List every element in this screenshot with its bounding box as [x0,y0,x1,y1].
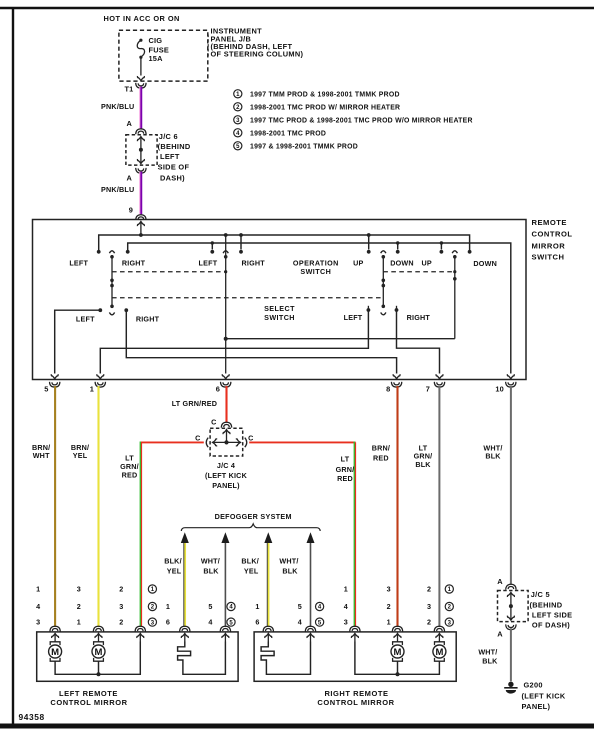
svg-text:(BEHIND: (BEHIND [530,600,563,609]
svg-text:C: C [211,418,216,427]
switch pole C (select switch pole) [381,251,386,315]
svg-text:2: 2 [119,618,123,627]
fixed contact LEFT2 [210,250,214,254]
svg-text:BLK: BLK [482,657,498,666]
heater element right mirror [261,642,310,675]
label WHT/BLK (right, defogger) [279,556,298,575]
right mirror heater pin numbers 5 4 [298,602,302,627]
svg-text:CONTROL MIRROR: CONTROL MIRROR [317,698,394,707]
svg-text:A: A [127,173,133,182]
wire rail 1 (battery feed bus inside switch) [99,235,470,250]
switch pole D (up/down pole, right side) [452,251,457,339]
svg-text:1998-2001 TMC PROD W/ MIRROR H: 1998-2001 TMC PROD W/ MIRROR HEATER [250,104,400,111]
label J/C 6 (BEHIND LEFT SIDE OF DASH) [158,132,191,182]
wire BLK/YEL left mirror heater to defogger [181,532,189,627]
left mirror pin column 3 numbers 2 3 2 [119,585,123,627]
svg-text:(LEFT KICK: (LEFT KICK [522,692,566,701]
right mirror circled variant notes 1 2 3 [445,585,453,626]
label RIGHT REMOTE CONTROL MIRROR [317,689,394,707]
svg-text:LEFT REMOTE: LEFT REMOTE [59,689,118,698]
label WHT/BLK (ground) [478,647,498,665]
wire BRN/YEL pin1 to left mirror [97,386,99,627]
svg-text:LEFT: LEFT [344,313,363,322]
svg-text:(BEHIND: (BEHIND [158,142,191,151]
svg-text:10: 10 [495,384,504,393]
fixed contact LEFT4 (select right) [367,306,371,312]
wire PNK/BLU from T1 to junction A of J/C 6 [140,87,141,129]
svg-text:BLK: BLK [203,566,219,575]
fixed contact LEFT1 [97,250,101,254]
svg-text:LEFT: LEFT [69,258,88,267]
pin 5 male terminal arrow [51,374,58,379]
svg-text:RIGHT: RIGHT [407,313,431,322]
svg-text:RIGHT: RIGHT [242,258,266,267]
svg-text:4: 4 [36,602,40,611]
legend note 4: 1998-2001 TMC PROD [234,129,326,138]
svg-text:5: 5 [298,602,302,611]
svg-text:G200: G200 [524,680,543,689]
wire WHT/BLK pin10 to J/C 5 [510,386,512,584]
wire BLK/YEL right mirror heater to defogger [264,532,272,627]
left mirror heater pin numbers 5 4 [208,602,212,627]
node pin9 on rail1 [139,233,143,237]
fuse output terminal arrow into connector T1 [137,76,144,81]
remote control mirror switch outline box [33,220,527,380]
svg-text:SWITCH: SWITCH [300,267,331,276]
svg-text:6: 6 [166,618,170,627]
svg-text:3: 3 [77,585,81,594]
connector A socket at J/C 6 bottom [136,168,146,173]
svg-text:OF DASH): OF DASH) [532,621,570,630]
svg-text:PANEL): PANEL) [522,702,551,711]
svg-text:WHT/: WHT/ [201,556,220,565]
fixed contact UP1 [367,250,371,254]
label J/C 4 (LEFT KICK PANEL) [205,461,248,490]
svg-text:A: A [497,577,503,586]
legend note 2: 1998-2001 TMC PROD W/ MIRROR HEATER [234,103,401,112]
svg-text:3: 3 [387,585,391,594]
callout dashed separator line [207,35,209,58]
left mirror entry terminal arrow 3 [137,633,144,641]
pin 10 socket [506,382,516,387]
pin 7 socket [434,382,444,387]
pin 5 socket [50,382,60,387]
label LT GRN/RED (right branch) [336,455,355,484]
label BRN/WHT [32,443,50,460]
svg-text:T1: T1 [124,85,133,94]
pin 9 male terminal arrow inside switch [137,222,144,236]
legend note 5: 1997 & 1998-2001 TMMK PROD [234,142,358,151]
wire pole B junction to pole D bottom [226,338,455,340]
svg-text:1: 1 [77,618,81,627]
svg-text:PNK/BLU: PNK/BLU [101,185,134,194]
svg-text:A: A [497,630,503,639]
label LEFT REMOTE CONTROL MIRROR [50,689,127,707]
svg-text:CONTROL MIRROR: CONTROL MIRROR [50,698,127,707]
svg-text:BLK: BLK [415,460,431,469]
node pole B / pin 6 junction [224,337,228,341]
svg-text:DASH): DASH) [160,173,185,182]
wire WHT/BLK J/C 5 to ground G200 [510,628,512,681]
wire pin 1 to LEFT4 select contact [100,312,368,374]
fixed contact UP2 [440,250,444,254]
svg-text:2: 2 [77,602,81,611]
svg-text:SIDE OF: SIDE OF [158,162,190,171]
svg-text:1: 1 [36,585,40,594]
svg-text:LEFT SIDE: LEFT SIDE [532,611,572,620]
svg-text:1: 1 [344,585,348,594]
svg-text:1997 & 1998-2001 TMMK PROD: 1997 & 1998-2001 TMMK PROD [250,143,358,150]
svg-text:BLK/: BLK/ [241,556,259,565]
pin 6 socket [221,382,231,387]
J/C 6 internal node and arrows [137,137,144,164]
svg-text:SWITCH: SWITCH [264,313,295,322]
svg-text:2: 2 [427,585,431,594]
right mirror entry terminal arrow 4 [394,633,401,641]
wire BRN/RED pin8 to right mirror [396,386,398,627]
svg-text:1997 TMC PROD & 1998-2001 TMC: 1997 TMC PROD & 1998-2001 TMC PROD W/O M… [250,117,473,124]
left mirror entry terminal arrow 4 [181,633,188,641]
right mirror pin column numbers 2 3 2 [427,585,431,627]
svg-text:YEL: YEL [73,451,88,460]
mechanical linkage dashed line right [383,271,455,273]
pin 1 socket [95,382,105,387]
label BLK/YEL (left) [164,556,182,575]
node RIGHT2 stub on rail1 [239,233,243,237]
wire rail 2 inside switch [128,243,511,374]
wire BRN/WHT pin5 to left mirror [54,386,56,627]
left mirror entry socket 5 [220,626,230,631]
label LT GRN/RED (left branch) [120,454,139,480]
fixed contact DOWN1 [396,250,400,254]
wire LT GRN/RED pin6 to J/C 4 [225,386,227,422]
svg-text:C: C [248,433,253,442]
svg-text:6: 6 [255,618,259,627]
left remote control mirror box [37,632,238,681]
right mirror entry socket 2 [305,626,315,631]
svg-text:9: 9 [129,206,133,215]
legend note 3: 1997 TMC PROD & 1998-2001 TMC PROD W/O MIRROR HEATER [234,116,473,125]
pin 8 male terminal arrow [393,374,400,379]
node left mirror motor2 common [97,672,101,676]
label LT GRN/BLK [414,443,433,468]
svg-text:BRN/: BRN/ [372,443,390,452]
svg-text:3: 3 [36,618,40,627]
heater element left mirror [178,642,226,675]
pin 1 male terminal arrow [97,374,104,379]
motor M4 right mirror (up/down) [433,642,446,661]
left mirror circled variant notes 1 2 3 [148,585,156,626]
pin 10 male terminal arrow [507,374,514,379]
svg-text:RIGHT: RIGHT [136,315,160,324]
fixed contact DOWN2 [468,250,472,254]
svg-text:1: 1 [255,602,259,611]
label BRN/RED [372,443,390,462]
J/C 4 internal arrows and node [212,430,241,446]
right mirror entry terminal arrow 1 [265,633,272,641]
connector T1 socket [136,83,146,88]
svg-text:5: 5 [208,602,212,611]
switch pole A (left/right pole, left mirror) [109,251,114,315]
label REMOTE CONTROL MIRROR SWITCH [532,218,573,262]
svg-text:4: 4 [208,618,212,627]
right remote control mirror box [254,632,456,681]
label OPERATION SWITCH [293,258,339,275]
contact stub RIGHT2 [240,235,242,250]
wire right mirror motor common bus [355,642,440,675]
svg-text:UP: UP [353,258,363,267]
left mirror entry socket 1 [50,626,60,631]
svg-text:1: 1 [166,602,170,611]
svg-text:WHT: WHT [33,451,50,460]
right mirror entry terminal arrow 2 [307,633,314,641]
wire RIGHT4 contact to pin 7 [397,312,440,374]
svg-text:BLK: BLK [282,566,298,575]
svg-text:RIGHT: RIGHT [122,258,146,267]
node DOWN1 stub on rail2 [396,241,399,244]
junction block J/C 6 dashed box [126,135,157,165]
wire RIGHT3 contact to pin 8 [126,310,396,373]
connector A socket at J/C 6 top [136,129,146,134]
label SELECT SWITCH [264,304,295,322]
svg-text:BLK: BLK [485,452,501,461]
wire PNK/BLU from J/C 6 to switch pin 9 [140,172,141,215]
right mirror circled variant notes 4 5 [316,602,324,626]
instrument panel J/B dashed box [119,30,208,81]
svg-text:PNK/BLU: PNK/BLU [101,102,134,111]
connector C socket at J/C 4 right [245,438,247,448]
svg-text:DEFOGGER SYSTEM: DEFOGGER SYSTEM [215,512,292,521]
connector socket at switch pin 9 [136,215,146,220]
switch pole B (pin 6 common pole) [223,235,228,374]
ground G200 symbol [504,682,517,694]
svg-text:3: 3 [427,602,431,611]
fixed contact RIGHT1 [126,250,130,254]
fixed contact RIGHT3 (select lower-left) [124,308,128,312]
svg-text:3: 3 [344,618,348,627]
svg-text:LEFT: LEFT [199,258,218,267]
svg-text:YEL: YEL [244,566,259,575]
node LEFT2 stub on rail2 [211,241,214,244]
fixed contact RIGHT2 [239,250,243,254]
label BRN/YEL [71,443,89,460]
svg-text:WHT/: WHT/ [478,647,497,656]
svg-text:SELECT: SELECT [264,304,295,313]
svg-text:1998-2001 TMC PROD: 1998-2001 TMC PROD [250,130,326,137]
left mirror entry socket 3 [135,626,145,631]
svg-text:8: 8 [386,384,390,393]
fuse CIG FUSE 15A symbol [137,39,144,76]
svg-text:DOWN: DOWN [390,258,414,267]
svg-text:94358: 94358 [19,712,45,722]
svg-text:(LEFT KICK: (LEFT KICK [205,471,248,480]
pin 8 socket [391,382,401,387]
node pole B top on rail1 [224,233,228,237]
right mirror entry terminal arrow 3 [351,633,358,641]
wire LT GRN/RED left branch from J/C 4 [140,442,204,628]
fixed contact RIGHT4 (select right) [395,306,399,312]
svg-text:C: C [195,433,200,442]
svg-text:1: 1 [387,618,391,627]
J/C 5 internal node and arrows [507,592,514,620]
svg-text:BLK/: BLK/ [164,556,182,565]
label BLK/YEL (right) [241,556,259,575]
connector C socket at J/C 4 top [221,422,231,427]
label G200 (LEFT KICK PANEL) [522,680,566,711]
wire LT GRN/BLK pin7 to right mirror [438,386,440,627]
svg-text:UP: UP [422,258,432,267]
svg-text:2: 2 [387,602,391,611]
label WHT/BLK (pin10) [483,443,502,460]
svg-text:2: 2 [119,585,123,594]
right mirror entry socket 5 [434,626,444,631]
pin 7 male terminal arrow [436,374,443,379]
motor M2 left mirror (up/down) [92,642,105,661]
connector A socket at J/C 5 top [506,584,516,589]
right mirror pin column numbers 1 4 3 [344,585,348,627]
label WHT/BLK (left) [201,556,220,575]
left mirror entry socket 2 [93,626,103,631]
right mirror entry socket 4 [392,626,402,631]
fixed contact LEFT3 (select lower-left) [98,308,102,312]
svg-text:LEFT: LEFT [76,315,95,324]
defogger system brace [181,524,320,531]
wire LT GRN/RED right branch from J/C 4 [249,442,355,628]
svg-text:15A: 15A [149,54,164,63]
mechanical linkage dashed line left [112,271,226,273]
wire WHT/BLK left mirror heater to defogger [221,532,229,627]
svg-text:RIGHT REMOTE: RIGHT REMOTE [324,689,388,698]
svg-text:4: 4 [344,602,348,611]
contact stub UP1 [368,235,370,250]
svg-text:RED: RED [337,474,353,483]
svg-text:J/C 5: J/C 5 [531,590,550,599]
svg-text:YEL: YEL [167,566,182,575]
svg-text:DOWN: DOWN [473,259,497,268]
svg-text:A: A [127,119,133,128]
left mirror pin column 1 numbers 1 4 3 [36,585,40,627]
svg-text:LT: LT [341,455,350,464]
contact stub DOWN1 [397,243,399,250]
node UP1 stub on rail1 [367,233,371,237]
motor M1 left mirror (left/right) [49,642,62,661]
mechanical linkage dashed line select [112,297,383,299]
svg-text:PANEL): PANEL) [212,481,240,490]
svg-text:MIRROR: MIRROR [532,241,566,250]
svg-text:HOT IN ACC OR ON: HOT IN ACC OR ON [104,14,180,23]
node UP2 stub on rail2 [440,241,443,244]
junction block J/C 4 dashed box [210,428,243,456]
left mirror heater pin numbers 1 6 [166,602,170,627]
svg-text:CONTROL: CONTROL [532,230,573,239]
right mirror entry socket 3 [350,626,360,631]
pin 6 male terminal arrow [222,374,229,379]
svg-text:5: 5 [44,384,48,393]
svg-text:OF STEERING COLUMN): OF STEERING COLUMN) [211,49,304,58]
svg-text:2: 2 [427,618,431,627]
svg-text:REMOTE: REMOTE [532,218,568,227]
motor M3 right mirror (left/right) [391,642,404,661]
left mirror pin column 2 numbers 3 2 1 [77,585,81,627]
svg-text:6: 6 [216,384,220,393]
legend note 1: 1997 TMM PROD & 1998-2001 TMMK PROD [234,90,400,99]
svg-text:J/C 6: J/C 6 [159,132,178,141]
label CIG FUSE 15A [149,36,170,63]
svg-text:RED: RED [122,470,138,479]
label INSTRUMENT PANEL J/B (BEHIND DASH, LEFT OF STEERING COLUMN) [211,27,304,59]
right mirror heater pin numbers 1 6 [255,602,259,627]
right mirror pin column numbers 3 2 1 [387,585,391,627]
svg-text:1: 1 [90,384,94,393]
wire left mirror motor common bus [55,642,140,675]
junction block J/C 5 dashed box [498,591,529,622]
svg-text:J/C 4: J/C 4 [217,461,235,470]
svg-text:LEFT: LEFT [160,152,180,161]
contact stub LEFT2 [211,243,213,250]
contact stub UP2 [440,243,442,250]
left mirror entry terminal arrow 2 [95,633,102,641]
svg-text:CIG: CIG [149,36,163,45]
svg-text:GRN/: GRN/ [336,465,355,474]
connector C socket at J/C 4 left [206,438,208,448]
right mirror entry socket 1 [263,626,273,631]
left mirror circled variant notes 4 5 [227,602,235,626]
node right mirror motor1 common [396,672,400,676]
svg-text:WHT/: WHT/ [279,556,298,565]
svg-text:1997 TMM PROD & 1998-2001 TMMK: 1997 TMM PROD & 1998-2001 TMMK PROD [250,91,400,98]
svg-text:SWITCH: SWITCH [532,252,565,261]
svg-text:RED: RED [373,454,389,463]
svg-text:3: 3 [119,602,123,611]
left mirror entry socket 4 [180,626,190,631]
svg-text:7: 7 [426,384,430,393]
left mirror entry terminal arrow 1 [52,633,59,641]
svg-text:LT GRN/RED: LT GRN/RED [172,399,217,408]
svg-text:4: 4 [298,618,302,627]
wire LEFT3 contact to pin 5 [55,310,101,373]
right mirror entry terminal arrow 5 [436,633,443,641]
wire WHT/BLK right mirror heater to defogger [307,532,315,627]
label J/C 5 (BEHIND LEFT SIDE OF DASH) [530,590,573,630]
connector A socket at J/C 5 bottom [506,624,516,629]
left mirror entry terminal arrow 5 [222,633,229,641]
